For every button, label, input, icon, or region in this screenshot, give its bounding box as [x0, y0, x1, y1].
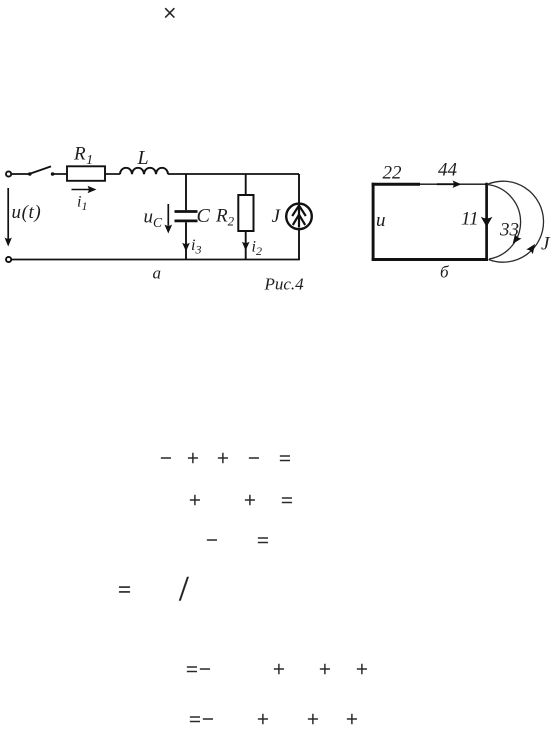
- svg-text:uC: uC: [144, 207, 164, 231]
- svg-text:R2: R2: [215, 206, 235, 229]
- wire: capacitor branch bottom with i3 arrow: [185, 222, 187, 259]
- current source J: [286, 204, 312, 230]
- svg-text:11: 11: [461, 209, 479, 230]
- resistor R1: [67, 166, 105, 181]
- source u(t) arrow: [5, 188, 12, 247]
- graph b: branch 1 (right vertical edge): [485, 183, 488, 261]
- wire: L to right end: [168, 173, 299, 175]
- svg-text:i3: i3: [191, 237, 201, 257]
- svg-text:Рис.4: Рис.4: [264, 275, 305, 294]
- wire: J branch bottom: [298, 230, 300, 260]
- graph b: bottom edge: [372, 258, 488, 261]
- svg-text:i2: i2: [252, 239, 262, 259]
- wire: J branch top: [298, 174, 300, 204]
- graph b: branch J arrow: [526, 242, 538, 254]
- current arrow i2: [242, 242, 250, 251]
- equation row 3: [206, 530, 218, 551]
- current arrow i3: [182, 243, 190, 252]
- wire: R1 to L: [105, 173, 120, 175]
- equation row 4: [118, 578, 131, 601]
- equation row 1: [160, 448, 172, 469]
- svg-text:33: 33: [499, 220, 519, 241]
- node: bottom-left input terminal: [6, 257, 11, 262]
- times symbol at top: [163, 2, 177, 26]
- svg-text:22: 22: [383, 163, 403, 184]
- svg-text:R1: R1: [73, 144, 93, 169]
- graph b: left edge (source u): [372, 183, 375, 261]
- inductor L: [120, 168, 168, 174]
- graph b: branch 4 (top-right thin edge): [420, 183, 488, 185]
- wire: terminal to switch: [12, 173, 29, 175]
- svg-text:a: a: [153, 264, 162, 283]
- wire: R2 branch bottom with i2 arrow: [245, 231, 247, 260]
- svg-text:C: C: [197, 205, 211, 227]
- graph b: branch 2 (top-left thick edge): [372, 183, 420, 186]
- current arrow i1: [72, 186, 97, 193]
- svg-text:u: u: [376, 210, 386, 231]
- capacitor C plates: [175, 212, 198, 221]
- graph b: branch 1 arrow: [481, 217, 493, 227]
- svg-text:L: L: [137, 147, 149, 169]
- equation row 6: [189, 709, 201, 730]
- svg-text:44: 44: [438, 160, 458, 181]
- svg-text:i1: i1: [77, 194, 87, 214]
- wire: capacitor branch top: [185, 174, 187, 210]
- graph b: branch J arc: [487, 181, 544, 262]
- figure: circuit (a) and graph (b): [0, 0, 555, 310]
- svg-text:u(t): u(t): [12, 202, 42, 223]
- wire: switch to R1: [54, 173, 67, 175]
- resistor R2: [238, 195, 253, 231]
- equation row 2: [189, 490, 201, 511]
- wire: bottom rail: [12, 259, 300, 261]
- voltage arrow uC: [164, 204, 172, 234]
- graph b: branch 3 arc: [487, 185, 521, 260]
- wire: R2 branch top: [245, 174, 247, 195]
- node: top-left input terminal: [6, 171, 11, 176]
- svg-text:б: б: [440, 263, 449, 282]
- svg-text:J: J: [272, 206, 282, 227]
- equation row 5: [186, 659, 198, 680]
- graph b: branch 4 direction arrow: [437, 181, 462, 188]
- svg-text:J: J: [541, 234, 551, 255]
- graph b: branch 3 arrow: [509, 234, 521, 246]
- switch S: [28, 166, 54, 175]
